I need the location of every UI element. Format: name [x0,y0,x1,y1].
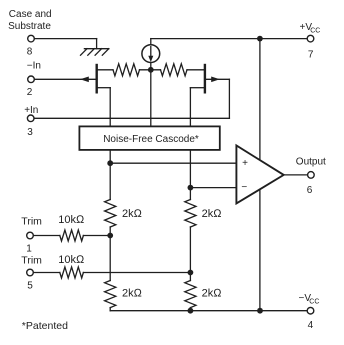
svg-text:7: 7 [308,50,314,61]
svg-text:2: 2 [27,87,33,98]
svg-text:Noise-Free Cascode*: Noise-Free Cascode* [103,134,199,145]
svg-text:2kΩ: 2kΩ [202,287,223,299]
svg-text:1: 1 [26,243,32,254]
svg-text:2kΩ: 2kΩ [122,287,143,299]
svg-text:6: 6 [307,185,313,196]
svg-text:+In: +In [24,105,38,116]
svg-text:4: 4 [308,320,314,331]
svg-text:2kΩ: 2kΩ [202,208,223,220]
svg-text:3: 3 [27,127,33,138]
svg-text:Case and: Case and [9,9,52,20]
svg-text:Substrate: Substrate [8,21,51,32]
svg-text:−In: −In [27,61,41,72]
svg-text:−: − [241,182,247,193]
svg-text:Output: Output [296,156,326,167]
svg-text:5: 5 [27,281,33,292]
svg-text:CC: CC [309,299,319,306]
svg-text:Trim: Trim [21,255,42,267]
svg-text:10kΩ: 10kΩ [58,214,85,226]
svg-text:CC: CC [310,27,320,34]
svg-text:*Patented: *Patented [22,320,68,332]
svg-text:10kΩ: 10kΩ [58,254,85,266]
svg-text:Trim: Trim [21,215,42,227]
svg-text:8: 8 [27,47,33,58]
svg-text:2kΩ: 2kΩ [122,208,143,220]
svg-text:+: + [242,158,248,169]
